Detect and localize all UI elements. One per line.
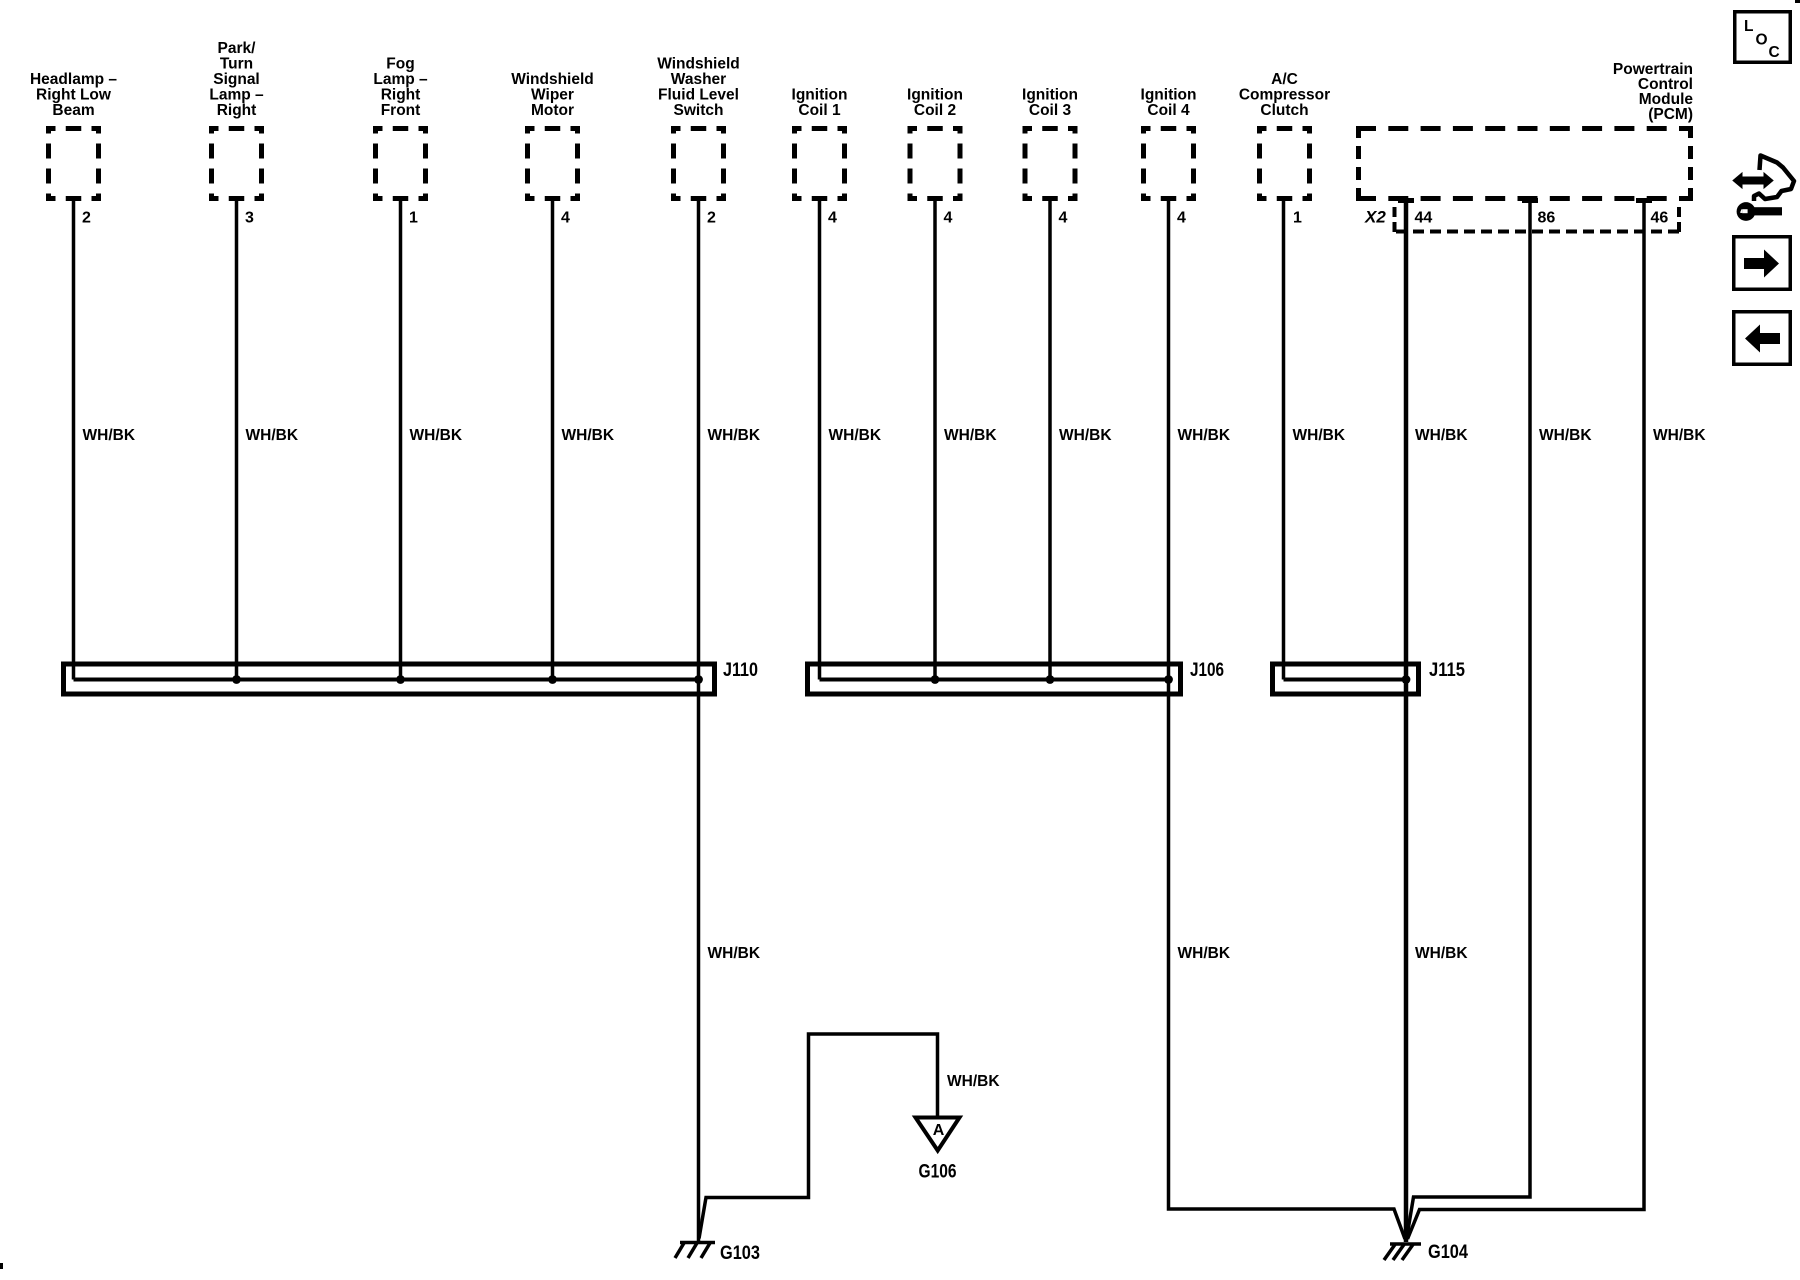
label: Windshield Washer Fluid Level Switch — [657, 56, 740, 120]
J115 internal bus wire — [1284, 678, 1407, 682]
svg-text:Headlamp –: Headlamp – — [30, 71, 117, 88]
splice pack J106 outer box — [808, 664, 1181, 694]
svg-text:WH/BK: WH/BK — [1539, 427, 1592, 444]
wire: headlamp pin 2 to J110 (WH/BK) — [72, 201, 76, 680]
component box: A/C Compressor Clutch — [1257, 126, 1312, 201]
svg-text:Lamp –: Lamp – — [209, 87, 264, 104]
forward arrow box — [1734, 237, 1791, 290]
page corner mark top-right — [1795, 0, 1800, 3]
wire: wiper motor pin 4 to J110 (WH/BK) — [551, 201, 555, 680]
junction dot on J110 at wire 3 — [396, 675, 405, 684]
wire: A/C compressor clutch pin 1 to J115 (WH/BK) — [1282, 201, 1286, 680]
svg-text:WH/BK: WH/BK — [1293, 427, 1346, 444]
svg-text:Coil 1: Coil 1 — [798, 102, 841, 119]
component box: Ignition Coil 2 — [908, 126, 963, 201]
svg-text:WH/BK: WH/BK — [708, 427, 761, 444]
svg-text:Compressor: Compressor — [1239, 87, 1330, 104]
svg-text:J115: J115 — [1429, 660, 1465, 681]
svg-text:Clutch: Clutch — [1260, 102, 1308, 119]
svg-text:(PCM): (PCM) — [1648, 106, 1693, 123]
wire: PCM pin 86 down and left to G104 (WH/BK) — [1407, 202, 1531, 1239]
svg-text:44: 44 — [1415, 210, 1433, 227]
svg-text:G104: G104 — [1428, 1242, 1468, 1263]
svg-text:Coil 3: Coil 3 — [1029, 102, 1072, 119]
svg-text:G106: G106 — [919, 1162, 957, 1183]
svg-text:Front: Front — [381, 102, 421, 119]
svg-text:O: O — [1756, 32, 1768, 49]
label: Headlamp - Right Low Beam — [30, 71, 117, 119]
svg-text:4: 4 — [561, 210, 570, 227]
pin stub at PCM bottom for pin 46 — [1636, 198, 1652, 203]
wire: washer switch pin 2 through J110 down to G103 (WH/BK) — [697, 201, 701, 1242]
component box: Windshield Wiper Motor — [525, 126, 580, 201]
splice pack J110 outer box — [64, 664, 715, 694]
svg-text:Beam: Beam — [52, 102, 94, 119]
back arrow box — [1734, 312, 1791, 365]
junction dot on J110 at wire 5 — [694, 675, 703, 684]
label: A/C Compressor Clutch — [1239, 71, 1330, 119]
label: Ignition Coil 4 — [1141, 87, 1197, 120]
label: Ignition Coil 1 — [792, 87, 848, 120]
LOC legend box — [1735, 12, 1791, 63]
component box: Ignition Coil 1 — [792, 126, 847, 201]
svg-text:4: 4 — [828, 210, 837, 227]
pin stub at PCM bottom for pin 86 — [1522, 198, 1538, 203]
svg-text:Windshield: Windshield — [511, 71, 594, 88]
wire: ignition coil 3 pin 4 to J106 (WH/BK) — [1048, 201, 1052, 680]
svg-text:WH/BK: WH/BK — [1178, 945, 1231, 962]
splice pack J115 outer box — [1273, 664, 1419, 694]
wire: park/turn pin 3 to J110 (WH/BK) — [235, 201, 239, 680]
component box: Ignition Coil 3 — [1023, 126, 1078, 201]
component box: Ignition Coil 4 — [1141, 126, 1196, 201]
J106 internal bus wire — [820, 678, 1169, 682]
component box: Park/ Turn Signal Lamp - Right — [209, 126, 264, 201]
svg-text:86: 86 — [1538, 210, 1556, 227]
J110 internal bus wire — [74, 678, 699, 682]
svg-text:WH/BK: WH/BK — [1653, 427, 1706, 444]
wire: PCM pin 46 down and left to G104 (WH/BK) — [1408, 202, 1645, 1239]
junction dot on J110 at wire 2 — [232, 675, 241, 684]
svg-text:L: L — [1744, 18, 1753, 35]
svg-text:Wiper: Wiper — [531, 87, 574, 104]
PCM module box: Powertrain Control Module (PCM) — [1356, 126, 1693, 201]
svg-text:C: C — [1769, 44, 1780, 61]
svg-text:Right Low: Right Low — [36, 87, 112, 104]
svg-text:J110: J110 — [723, 660, 758, 681]
wire: G106 branch from washer ground wire (WH/BK) — [699, 1034, 938, 1239]
service icon: double arrow, outline and wrench — [1733, 156, 1794, 221]
svg-text:2: 2 — [707, 210, 716, 227]
svg-text:3: 3 — [245, 210, 254, 227]
svg-text:WH/BK: WH/BK — [1415, 945, 1468, 962]
svg-text:WH/BK: WH/BK — [708, 945, 761, 962]
svg-text:WH/BK: WH/BK — [944, 427, 997, 444]
svg-text:Switch: Switch — [674, 102, 724, 119]
label: Windshield Wiper Motor — [511, 71, 594, 119]
page corner mark bottom-left — [0, 1263, 3, 1269]
ground G104 symbol — [1384, 1244, 1421, 1260]
svg-text:Lamp –: Lamp – — [373, 71, 428, 88]
svg-text:WH/BK: WH/BK — [410, 427, 463, 444]
svg-text:WH/BK: WH/BK — [1059, 427, 1112, 444]
ground G106 triangle symbol — [916, 1118, 960, 1151]
svg-text:Ignition: Ignition — [1022, 87, 1078, 104]
svg-text:Right: Right — [381, 87, 421, 104]
label: Fog Lamp - Right Front — [373, 56, 428, 120]
svg-text:4: 4 — [1059, 210, 1068, 227]
junction dot on J106 at coil 2 — [931, 675, 940, 684]
svg-text:Park/: Park/ — [218, 40, 257, 57]
svg-text:WH/BK: WH/BK — [83, 427, 136, 444]
svg-text:WH/BK: WH/BK — [1178, 427, 1231, 444]
svg-text:WH/BK: WH/BK — [1415, 427, 1468, 444]
component box: Windshield Washer Fluid Level Switch — [671, 126, 726, 201]
svg-text:4: 4 — [944, 210, 953, 227]
wire: PCM pin 44 through J115 down to G104 (WH/BK) — [1404, 202, 1409, 1242]
svg-text:Washer: Washer — [671, 71, 726, 88]
svg-text:Ignition: Ignition — [907, 87, 963, 104]
svg-text:G103: G103 — [720, 1243, 760, 1264]
svg-text:X2: X2 — [1364, 208, 1386, 227]
component box: Headlamp - Right Low Beam — [46, 126, 101, 201]
svg-text:Turn: Turn — [220, 56, 253, 73]
ground G103 symbol — [675, 1243, 715, 1259]
svg-text:Right: Right — [217, 102, 257, 119]
svg-text:WH/BK: WH/BK — [947, 1073, 1000, 1090]
svg-text:Fluid Level: Fluid Level — [658, 87, 739, 104]
svg-text:Windshield: Windshield — [657, 56, 740, 73]
svg-text:1: 1 — [409, 210, 418, 227]
svg-text:Ignition: Ignition — [792, 87, 848, 104]
junction dot on J106 at coil 4 — [1164, 675, 1173, 684]
svg-text:46: 46 — [1651, 210, 1669, 227]
svg-text:Coil 4: Coil 4 — [1147, 102, 1190, 119]
svg-text:1: 1 — [1293, 210, 1302, 227]
label: Park/ Turn Signal Lamp - Right — [209, 40, 264, 119]
wire: ignition coil 1 pin 4 to J106 (WH/BK) — [818, 201, 822, 680]
junction dot on J115 at PCM 44 wire — [1402, 675, 1411, 684]
svg-text:Ignition: Ignition — [1141, 87, 1197, 104]
label: Powertrain Control Module (PCM) — [1613, 61, 1693, 123]
label: Ignition Coil 3 — [1022, 87, 1078, 120]
svg-text:Fog: Fog — [386, 56, 414, 73]
component box: Fog Lamp - Right Front — [373, 126, 428, 201]
pin stub at PCM bottom for pin 44 — [1398, 198, 1414, 203]
svg-text:2: 2 — [82, 210, 91, 227]
wire: ignition coil 2 pin 4 to J106 (WH/BK) — [933, 201, 937, 680]
svg-text:Motor: Motor — [531, 102, 574, 119]
wire: fog lamp pin 1 to J110 (WH/BK) — [399, 201, 403, 680]
svg-text:Coil 2: Coil 2 — [914, 102, 956, 119]
svg-text:A: A — [933, 1122, 945, 1139]
svg-text:WH/BK: WH/BK — [829, 427, 882, 444]
junction dot on J106 at coil 3 — [1046, 675, 1055, 684]
PCM connector X2 dashed outline — [1395, 207, 1682, 233]
svg-text:4: 4 — [1177, 210, 1186, 227]
svg-text:A/C: A/C — [1271, 71, 1298, 88]
svg-text:WH/BK: WH/BK — [562, 427, 615, 444]
svg-text:WH/BK: WH/BK — [246, 427, 299, 444]
svg-text:J106: J106 — [1190, 660, 1224, 681]
svg-text:Signal: Signal — [213, 71, 260, 88]
junction dot on J110 at wire 4 — [548, 675, 557, 684]
label: Ignition Coil 2 — [907, 87, 963, 120]
wire: ignition coil 4 pin 4 through J106 down and right to G104 (WH/BK) — [1169, 201, 1406, 1239]
